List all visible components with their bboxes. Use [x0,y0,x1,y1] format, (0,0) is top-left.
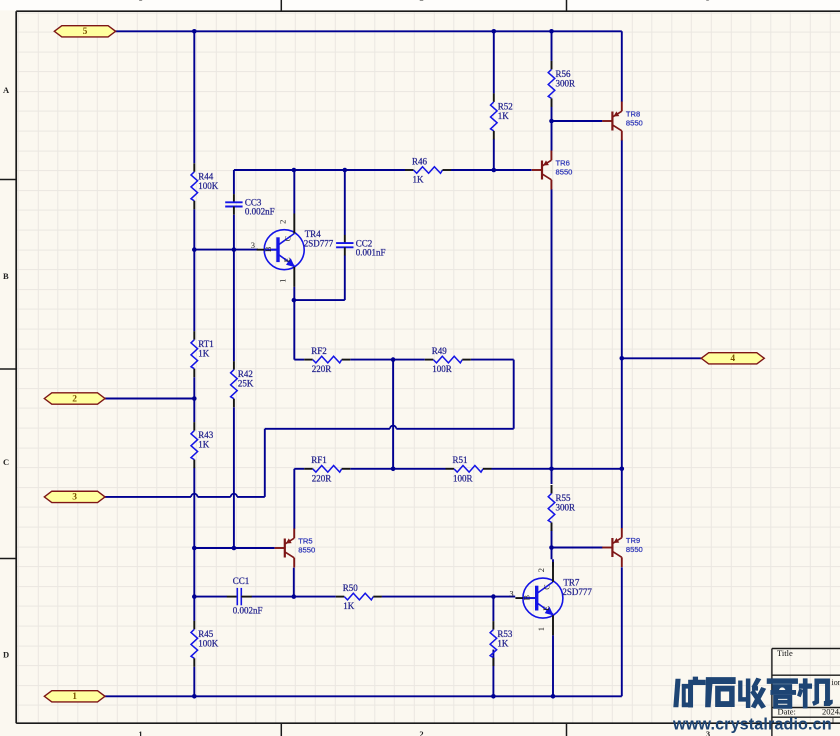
svg-text:R46: R46 [412,156,428,166]
junction bottom rail / R53 [491,694,496,699]
svg-text:A: A [3,85,10,95]
wire bottom rail (port 1) to output column [105,695,622,697]
junction TR4 emitter / CC2 bottom row [292,298,297,303]
svg-text:D: D [3,650,9,660]
resistor R50 1K [336,583,382,611]
junction TR4 base row / CC3-R42 column [232,247,237,252]
svg-text:220R: 220R [312,473,332,483]
junction bottom rail / TR7 emitter [551,694,556,699]
wire output column x=622 (top rail down to TR8 emitter) [621,31,623,101]
svg-text:1K: 1K [498,111,510,121]
wire TR4 emitter row to CC2 column [294,299,345,301]
svg-text:300R: 300R [556,503,576,513]
svg-text:R50: R50 [343,583,359,593]
svg-text:0.002nF: 0.002nF [245,207,275,217]
svg-text:B: B [264,246,273,252]
svg-text:TR9: TR9 [626,536,640,545]
svg-text:TR6: TR6 [556,159,570,168]
svg-text:2: 2 [277,220,287,224]
svg-text:3: 3 [72,493,77,503]
wire mid-right column x=551.5 (TR6 collector to R55) [551,189,553,484]
resistor R46 1K [405,156,451,184]
svg-text:CC1: CC1 [233,576,250,586]
wire hop port3 row over x=194 [191,494,197,497]
wire left column x=194 (top rail to port1) segment 1 [193,31,195,163]
svg-text:2SD777: 2SD777 [562,587,592,597]
watermark logo text (crystalradio) [674,677,833,708]
svg-text:E: E [542,606,551,611]
junction TR5 base row / R42 column [232,546,237,551]
svg-text:TR5: TR5 [298,537,312,546]
junction top rail / R56 column [549,29,554,34]
wire TR8 collector down through port4/R51 junctions to TR9 emitter [621,140,623,528]
svg-text:RF2: RF2 [311,346,327,356]
wire TR7 collector up to TR9 collector stub [552,559,554,567]
port 4 [701,353,764,364]
wire TR7 emitter down to bottom rail [552,635,554,696]
wire left column segment 2 (R44 to RT1) [193,209,195,331]
wire CC3/R42 column x=234: corner at R46 row down to CC3 [233,170,235,194]
svg-text:2: 2 [419,729,423,736]
port 5 [54,26,115,37]
svg-text:R52: R52 [498,101,513,111]
junction R51 row / output column [620,467,625,472]
wire TR4 base row from left column [194,249,258,251]
wire CC1/R50/TR7-base row y=596.6 [194,596,227,598]
wire RF1 corner down to TR5 emitter [293,469,295,529]
wire TR5 collector down to CC1 row [293,568,295,597]
wire port 3 row y=497 with hops over x=194 and x=234 columns [105,496,191,498]
port 2 [44,393,105,404]
svg-text:0.002nF: 0.002nF [233,606,263,616]
svg-text:25K: 25K [238,379,254,389]
svg-text:300R: 300R [556,78,576,88]
wire mid row y=429 (to port3 riser), hops over x=393 column [265,428,390,430]
junction TR4 base row / left column [192,247,197,252]
svg-text:R51: R51 [453,455,468,465]
svg-text:8550: 8550 [626,545,643,554]
svg-text:8550: 8550 [298,545,315,554]
junction R46 row / TR4 collector [292,168,297,173]
svg-text:R44: R44 [198,171,214,181]
svg-text:R45: R45 [198,629,214,639]
svg-text:8550: 8550 [556,167,573,176]
wire hop mid row over x=393 [390,426,396,429]
wire CC2 column lower (CC2 to emitter row) [344,255,346,300]
wire RF1/R51 row y=469 [294,468,304,470]
svg-text:100K: 100K [198,181,219,191]
junction TR5 base row / left column [192,546,197,551]
junction port2 / left column [192,396,197,401]
svg-text:220R: 220R [312,364,332,374]
resistor R45 100K [191,621,219,667]
svg-text:3: 3 [251,240,255,250]
svg-text:2: 2 [72,394,77,404]
resistor RF2 220R [304,346,350,374]
wire TR4 collector to R46 row [293,170,295,214]
wire R49 right end down to mid row [513,360,515,429]
transistor TR5 8550 (PNP) [275,529,316,568]
svg-text:TR7: TR7 [563,578,580,588]
wire TR5 base row [194,547,274,549]
junction R46 row / CC2 column [343,168,348,173]
svg-text:1: 1 [536,627,546,631]
border zone numbers top [138,0,710,3]
svg-text:100K: 100K [198,638,219,648]
resistor R52 1K [491,93,513,139]
resistor R44 100K [191,163,219,209]
resistor R42 25K [231,361,254,407]
svg-text:R56: R56 [556,69,572,79]
wire R53 column x=493.4 [492,597,494,622]
wire TR9 base row [552,547,603,549]
svg-text:100R: 100R [432,364,452,374]
junction RF1-R51 junction [391,467,396,472]
wire TR8 base row [552,120,603,122]
wire R56 column x=551.5 top [551,31,553,61]
svg-text:0.001nF: 0.001nF [356,248,386,258]
wire CC3 bottom to TR4 base junction and on to R42 [233,215,235,362]
svg-text:2: 2 [419,0,423,3]
svg-text:B: B [523,594,532,600]
wire R56 bottom to TR8 base junction, down to TR6 emitter [551,107,553,151]
wire CC2 column upper (R46 row to CC2) [344,170,346,235]
junction port4 / output column [620,356,625,361]
wire TR9 collector down to bottom rail corner [621,567,623,696]
svg-text:1K: 1K [413,175,425,185]
svg-text:3: 3 [706,0,710,3]
svg-text:R42: R42 [238,369,253,379]
svg-text:RT1: RT1 [198,339,213,349]
svg-text:1: 1 [72,692,77,702]
svg-text:1: 1 [138,729,142,736]
svg-text:1: 1 [277,279,287,283]
junction TR7 base row / R53 top [491,594,496,599]
wire R55 bottom to TR9 base row / TR7 collector [551,530,553,559]
transistor TR6 8550 (PNP) [532,151,573,190]
capacitor CC1 0.002nF [227,576,263,616]
wire top rail from port 5 to output column [116,30,622,32]
junction top rail / R52 column [492,29,497,34]
svg-text:1K: 1K [198,440,210,450]
resistor R53 1K [490,621,513,666]
svg-text:C: C [284,235,293,241]
wire left column segment 5 (R45 to port1) [193,667,195,697]
border zone dividers [0,0,567,736]
resistor RF1 220R [304,455,350,483]
junction CC1 row / TR5 collector [292,594,297,599]
wire TR4 emitter down to RF2 corner [293,287,295,360]
wire R46 row y=170 from CC3 corner to TR6 base [234,169,405,171]
wire left column segment 4 (R43 through port3 hop to TR5 base row) [193,468,195,621]
svg-text:1K: 1K [198,349,210,359]
transistor TR4 2SD777 (NPN) [251,214,334,287]
port 1 [44,691,105,702]
wire R42 bottom through port3 hop to TR5 base row [233,407,235,548]
title block [772,648,840,736]
resistor R56 300R [548,61,575,107]
svg-text:ion: ion [832,678,840,687]
capacitor CC2 0.001nF [336,235,385,258]
svg-text:E: E [283,257,292,262]
resistor RT1 1K [191,331,214,377]
transistor TR7 2SD777 (NPN) [509,562,592,635]
port 3 [44,491,105,502]
border zone letters A B C D [3,85,10,660]
svg-text:3: 3 [509,588,513,598]
svg-text:C: C [3,457,9,467]
resistor R43 1K [191,422,214,468]
wire R52 column x=494 top [493,31,495,93]
wire R52 bottom to R46 row [493,139,495,170]
svg-text:TR8: TR8 [626,110,640,119]
svg-text:www.crystalradio.cn: www.crystalradio.cn [672,716,832,734]
svg-text:R55: R55 [556,493,572,503]
svg-text:2: 2 [536,568,546,572]
resistor R49 100R [425,346,471,374]
svg-text:2SD777: 2SD777 [304,239,334,249]
svg-text:RF1: RF1 [311,455,327,465]
svg-text:R49: R49 [432,346,448,356]
svg-text:4: 4 [730,354,735,364]
wire feedback column x=393 between RF2 row and RF1 row [392,360,394,469]
svg-text:5: 5 [83,27,88,37]
wire port3 riser x=265 [264,429,266,497]
wire hop port3 row over x=234 [231,494,237,497]
junction R51 row / mid-right column [549,467,554,472]
wire RF2/R49 row y=360 [294,359,304,361]
border zone numbers bottom [138,729,710,736]
svg-text:C: C [542,584,551,590]
svg-text:R43: R43 [198,430,214,440]
svg-text:Title: Title [777,648,793,658]
resistor R55 300R [548,485,575,531]
transistor TR9 8550 (PNP) [602,528,643,567]
junction TR9 base row / mid-right column [549,545,554,550]
svg-text:TR4: TR4 [305,229,322,239]
wire port 2 row y=398.5 [105,398,195,400]
junction bottom rail / R45 [192,694,197,699]
svg-text:1K: 1K [343,601,355,611]
wire left column segment 3 (RT1 to R43) [193,377,195,422]
junction TR8 base row / R56 bottom [549,119,554,124]
svg-text:R53: R53 [497,629,513,639]
capacitor CC3 0.002nF [225,194,274,217]
resistor R51 100R [446,455,492,483]
svg-text:B: B [3,271,9,281]
junction CC1 row / left column [192,594,197,599]
junction R46 row / R52 bottom [492,168,497,173]
transistor TR8 8550 (PNP) [602,102,643,141]
wire port 4 row [622,357,701,359]
junction RF2-R49 junction [391,357,396,362]
junction top rail / R44 column [192,29,197,34]
svg-text:1: 1 [138,0,142,3]
svg-text:8550: 8550 [626,118,643,127]
svg-text:1K: 1K [497,639,509,649]
svg-text:100R: 100R [453,473,473,483]
